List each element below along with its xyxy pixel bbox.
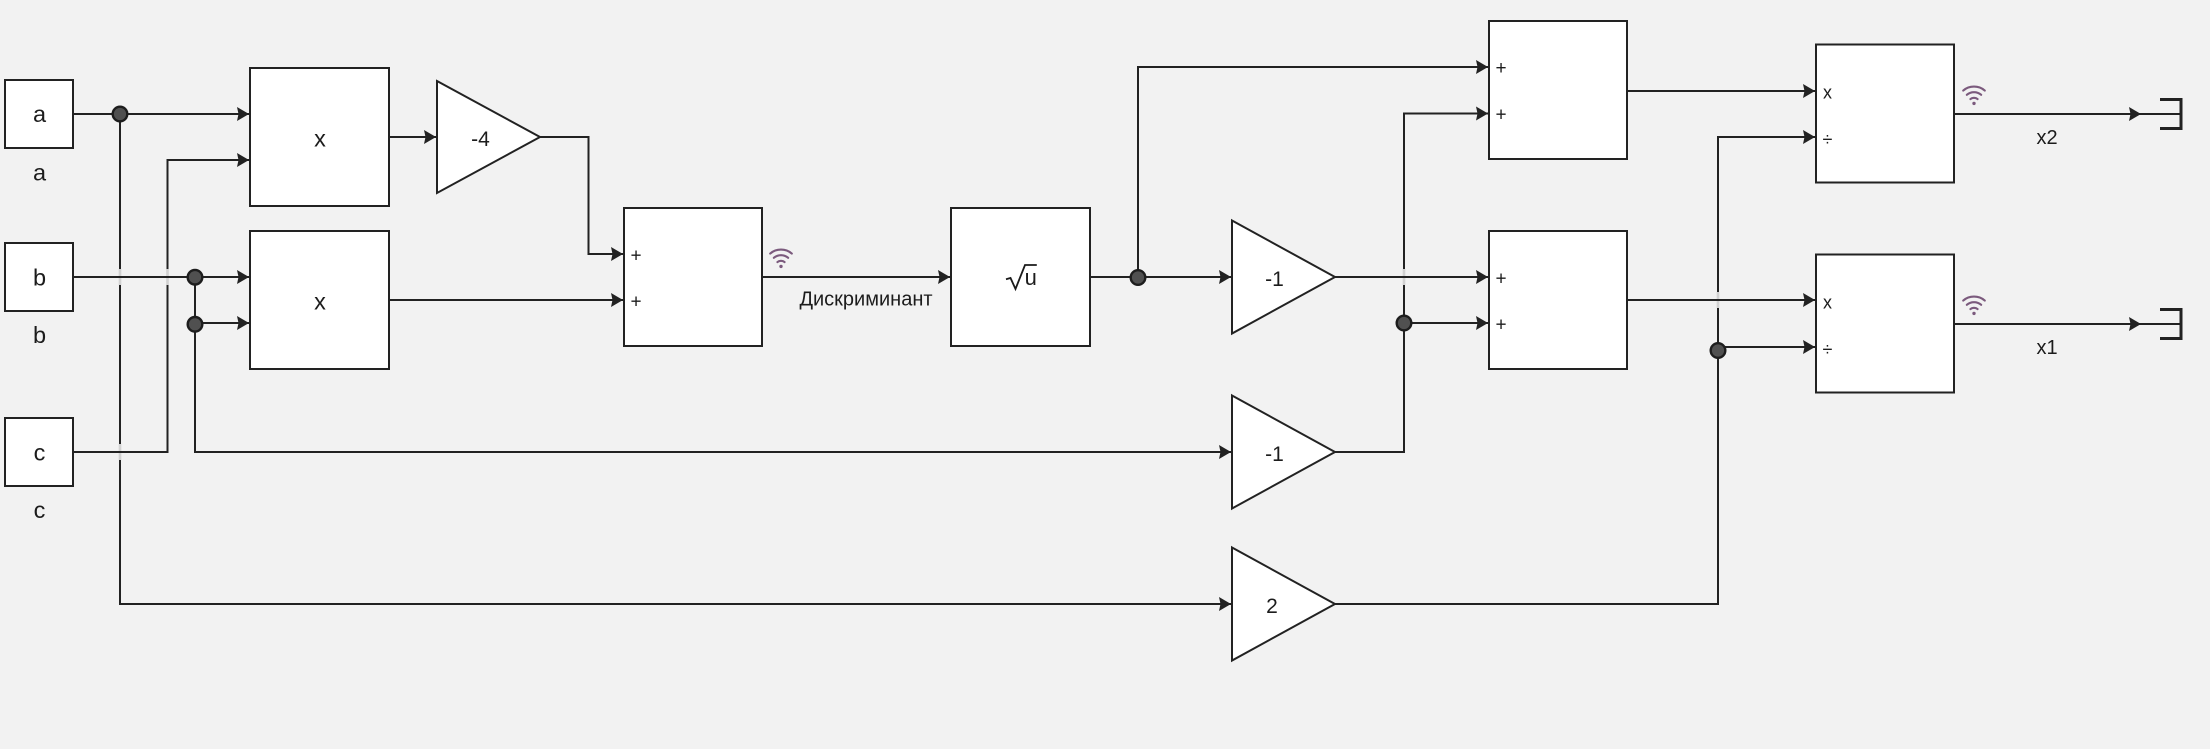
svg-text:x1: x1 [2036,337,2057,359]
arrowhead into adder SUM1 in1 [611,247,623,261]
arrowhead into multiplier X2 in2 [237,316,249,330]
svg-text:x: x [1823,292,1832,312]
arrowhead into adder SUM3 in2 [1476,316,1488,330]
svg-text:+: + [1495,104,1506,125]
radical sign of sqrt u [1006,265,1037,289]
input block c [5,418,73,486]
svg-text:+: + [1495,315,1506,336]
svg-text:x: x [1823,82,1832,102]
divider block DIV2 [1816,255,1954,393]
wire branch 2a to divider DIV2 divisor [1718,346,1815,348]
svg-text:+: + [1495,269,1506,290]
arrowhead into multiplier X1 in1 [237,107,249,121]
line jump gap on vertical 2a line at SUM3-out crossing [1717,292,1720,308]
arrowhead into gain -1 lower [1219,445,1231,459]
junction dot on a wire [113,107,128,122]
arrowhead into adder SUM1 in2 [611,293,623,307]
arrowhead into adder SUM2 in1 [1476,60,1488,74]
wire branch -b to adder SUM3 in2 [1404,322,1488,324]
svg-text:x: x [314,125,326,151]
wire gain 2 out up to dividers divisor inputs [1335,137,1815,604]
wire sqrt branch up to adder SUM2 in1 [1138,67,1488,277]
svg-text:x: x [314,288,326,314]
wire c output to multiplier X1 in2 [72,160,249,452]
svg-text:+: + [1495,58,1506,79]
gain block -1 middle [1232,221,1335,334]
wifi icon on SUM1 output [770,250,792,269]
wire a branch down to gain 2 [120,114,1231,604]
arrowhead into sqrt block [938,270,950,284]
svg-text:+: + [630,246,641,267]
divider block DIV1 [1816,45,1954,183]
output terminator x2 [2160,98,2181,130]
svg-text:b: b [33,322,46,348]
wire b branch to multiplier X2 in2 [195,277,249,323]
arrowhead into divider DIV1 divisor [1803,130,1815,144]
output terminator x1 [2160,308,2181,340]
wire divider DIV2 out to output x1 [1954,323,2181,325]
arrowhead into divider DIV1 dividend [1803,84,1815,98]
gain block -4 [437,81,540,193]
junction dot on 2a vertical [1711,343,1726,358]
svg-text:÷: ÷ [1823,340,1833,360]
svg-text:Дискриминант: Дискриминант [799,289,932,311]
line jump gap on vertical -b line at sqrt-out crossing [1403,269,1406,285]
wire gain -1 middle out to adder SUM3 in1 [1335,276,1488,278]
svg-text:c: c [34,497,46,523]
wifi icon on DIV1 output [1963,87,1985,106]
arrowhead on x1 output wire [2129,317,2141,331]
wire a output to multiplier in1 [73,113,249,115]
wifi icon on DIV2 output [1963,297,1985,316]
arrowhead into gain 2 [1219,597,1231,611]
line jump gap on vertical a-line at b-wire crossing [119,269,122,285]
svg-text:x2: x2 [2036,127,2057,149]
arrowhead into gain -4 [424,130,436,144]
wire gain -4 out to adder SUM1 in1 [540,137,623,254]
svg-text:c: c [34,440,46,466]
arrowhead into multiplier X2 in1 [237,270,249,284]
arrowhead into divider DIV2 divisor [1803,340,1815,354]
input block b [5,243,73,311]
gain block 2 [1232,548,1335,661]
wire gain -1 lower out up to adder SUM2 in2 [1335,114,1488,453]
arrowhead on x2 output wire [2129,107,2141,121]
arrowhead into adder SUM2 in2 [1476,107,1488,121]
svg-text:a: a [33,101,47,127]
sqrt block [951,208,1090,346]
svg-text:÷: ÷ [1823,130,1833,150]
svg-text:2: 2 [1266,595,1278,618]
wire b branch down to gain -1 lower [195,323,1231,452]
multiplier block X1 (a*c) [250,68,389,206]
junction dot on -b vertical [1397,316,1412,331]
junction dot on b wire upper [188,270,203,285]
arrowhead into gain -1 middle [1219,270,1231,284]
wire multiplier X2 out to adder SUM1 in2 [389,299,623,301]
adder block SUM1 [624,208,762,346]
adder block SUM3 [1489,231,1627,369]
input block a [5,80,73,148]
svg-text:-1: -1 [1265,443,1284,466]
wire sqrt out to gain -1 middle [1089,276,1231,278]
svg-text:a: a [33,159,47,185]
svg-text:-4: -4 [471,128,490,151]
wire multiplier X1 out to gain -4 [389,136,436,138]
arrowhead into multiplier X1 in2 [237,153,249,167]
wire divider DIV1 out to output x2 [1954,113,2181,115]
svg-text:+: + [630,292,641,313]
svg-text:-1: -1 [1265,268,1284,291]
multiplier block X2 (b*b) [250,231,389,369]
arrowhead into adder SUM3 in1 [1476,270,1488,284]
gain block -1 lower [1232,396,1335,509]
wire adder SUM1 out to sqrt block (Discriminant) [762,276,950,278]
wire adder SUM2 out to divider DIV1 [1627,90,1815,92]
junction dot after sqrt block [1131,270,1146,285]
adder block SUM2 [1489,21,1627,159]
line jump gap on vertical c-line at b-wire crossing [166,269,169,285]
wire adder SUM3 out to divider DIV2 [1627,299,1815,301]
wire b output to multiplier X2 in1 [72,276,249,278]
junction dot on b wire lower [188,317,203,332]
svg-text:u: u [1025,265,1037,290]
line jump gap on vertical a-line at c-wire crossing [119,444,122,460]
svg-text:b: b [33,265,46,291]
arrowhead into divider DIV2 dividend [1803,293,1815,307]
